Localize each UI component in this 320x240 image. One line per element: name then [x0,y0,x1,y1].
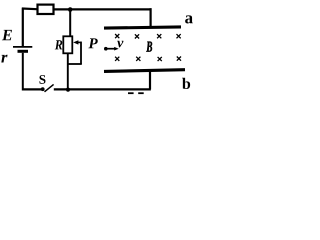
wire: top wire right segment [54,8,152,10]
particle dot [104,47,108,51]
velocity arrow [107,48,116,50]
label S [39,75,45,84]
wire: left rail lower [22,53,24,91]
wire: rheostat bottom vertical [67,53,69,89]
rheostat slider arrow P [78,41,82,43]
node junction dot at top wire [68,7,73,12]
field cross x6 bottom row [136,57,140,61]
wire: vertical from top node down to rheostat [69,10,71,37]
resistor R0 (box in top wire) [38,5,54,14]
wire: top wire left segment [22,7,37,10]
label E [2,30,12,40]
wire: bottom wire left of switch [22,88,42,90]
switch S left contact dot [41,87,45,91]
cropped text dash 1 below bottom wire [128,92,134,94]
label b [182,78,190,89]
wire: left rail upper [22,8,24,47]
field cross x1 top row [115,34,119,38]
field cross x3 top row [157,34,161,38]
wire: bottom wire right of switch [54,88,151,90]
cropped text dash 2 below bottom wire [138,92,144,94]
label a [185,15,193,23]
battery E short plate [18,50,29,53]
label R [55,40,63,49]
wire: right bottom vertical from plate b [149,71,151,89]
field cross x2 top row [135,34,139,38]
capacitor plate b (bottom plate) [104,70,185,72]
label v [117,41,123,48]
label r [1,55,7,63]
label P [88,38,97,48]
field cross x8 bottom row [177,57,181,61]
node junction dot at rheostat bottom [66,88,70,92]
capacitor plate a (top plate) [104,27,181,28]
wire: right top vertical to plate a [150,8,152,27]
switch S lever [45,84,54,91]
label B [146,42,152,52]
field cross x7 bottom row [158,57,162,61]
rheostat R box [63,36,72,53]
battery E long plate [13,46,32,48]
field cross x5 bottom row [115,57,119,61]
field cross x4 top row [177,34,181,38]
wire: slider loop horizontal [68,63,82,65]
wire: slider vertical [80,42,82,64]
